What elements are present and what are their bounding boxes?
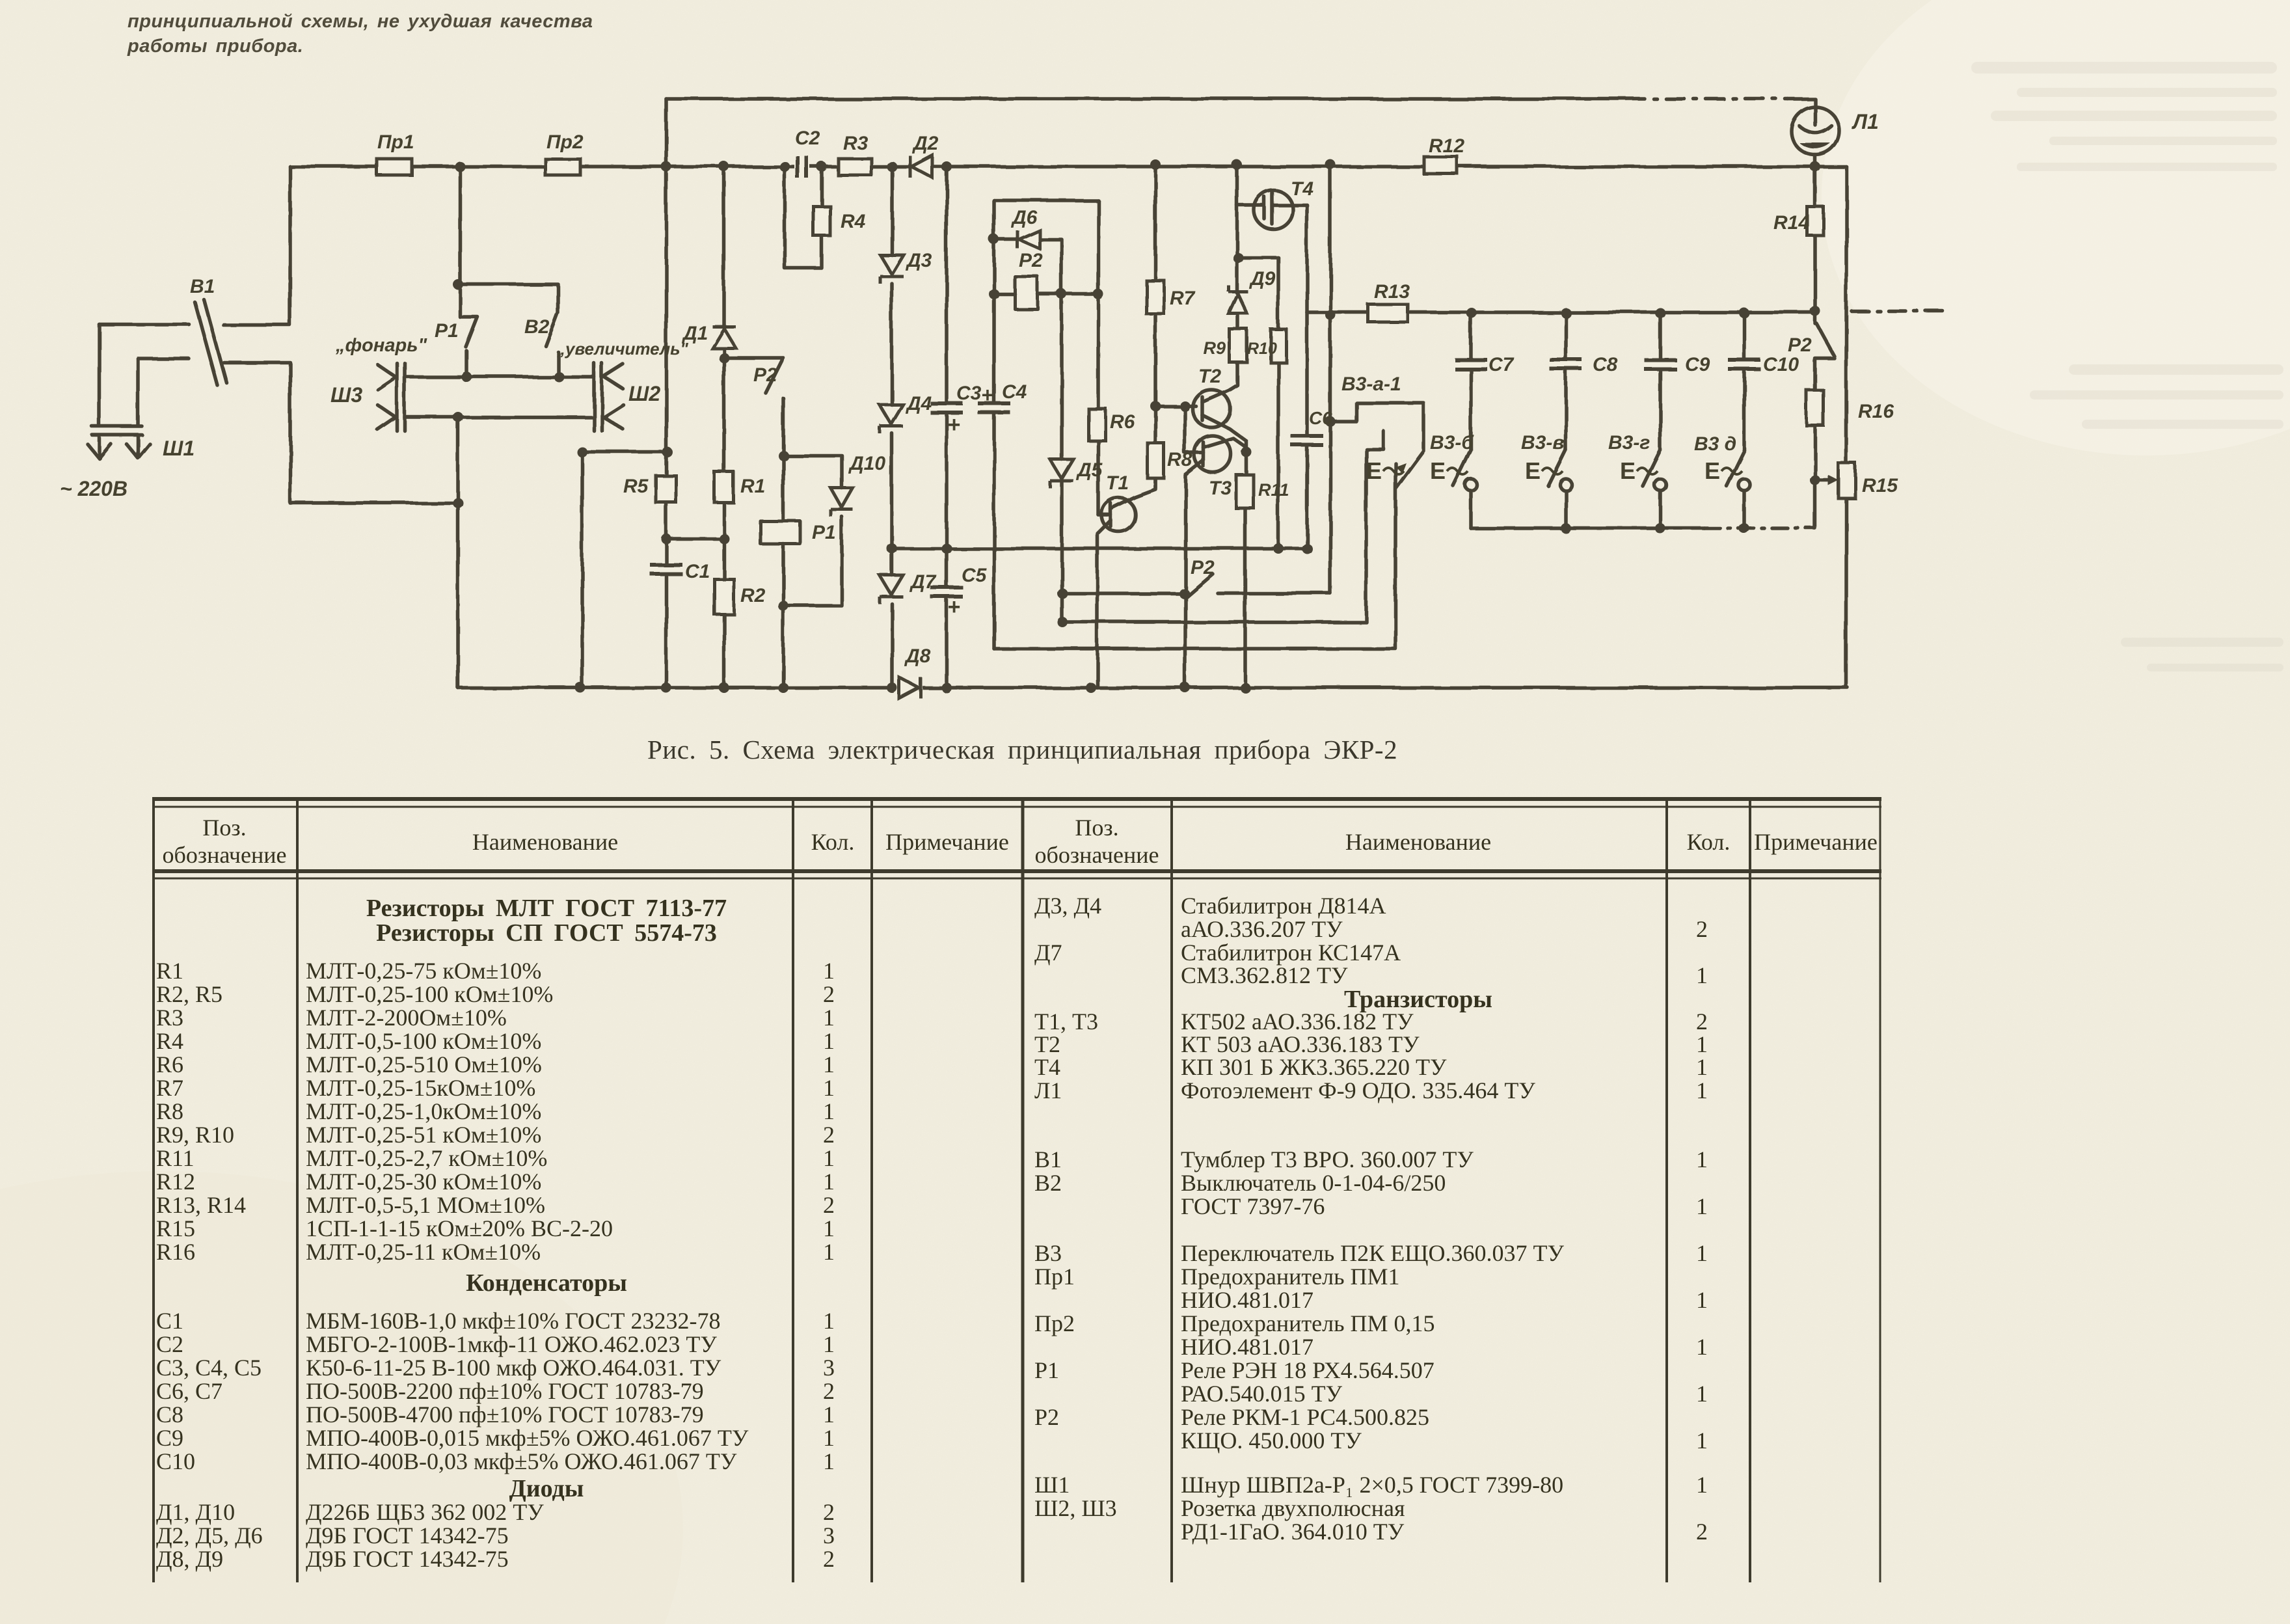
svg-text:R14: R14 [1773,212,1809,234]
svg-text:3: 3 [823,1522,835,1549]
wire R5 node to R1 node [666,537,724,541]
svg-text:Реле РЭН 18 РХ4.564.507: Реле РЭН 18 РХ4.564.507 [1181,1357,1435,1383]
svg-text:1: 1 [823,1028,835,1054]
wire node to R1 [722,358,726,472]
svg-text:РД1-1ГаО. 364.010 ТУ: РД1-1ГаО. 364.010 ТУ [1181,1519,1405,1545]
svg-text:+: + [947,413,960,437]
diode Д4 [880,405,903,433]
svg-text:1: 1 [1696,1054,1708,1080]
transistor Т4 [1254,190,1293,229]
svg-text:Наименование: Наименование [1345,829,1491,855]
wire C6 branch [1305,312,1309,548]
svg-text:Пр1: Пр1 [377,131,414,153]
wire R7 branch [1153,165,1157,443]
wire С8 column [1564,313,1568,450]
resistor R12 [1424,157,1457,174]
wire Д9 to R9 [1236,314,1240,329]
capacitor С9 [1644,358,1677,371]
svg-text:1: 1 [1696,1193,1708,1219]
svg-text:R8: R8 [1167,449,1192,470]
wire Д5 vertical [1060,294,1064,622]
svg-text:Д3, Д4: Д3, Д4 [1034,893,1101,919]
svg-text:2: 2 [823,1378,835,1404]
svg-text:Д5: Д5 [1075,459,1103,481]
junction dots [455,161,465,172]
capacitor С6 [1291,434,1323,447]
diode Д7 [880,575,903,604]
svg-text:1: 1 [823,1331,835,1357]
svg-text:С3: С3 [956,383,982,404]
svg-text:Конденсаторы: Конденсаторы [466,1269,627,1297]
resistor R2 [714,579,734,614]
svg-text:R11: R11 [156,1145,195,1171]
svg-text:С9: С9 [156,1425,183,1451]
svg-text:С4: С4 [1002,381,1027,403]
svg-text:НИО.481.017: НИО.481.017 [1181,1287,1313,1313]
diode Д3 [880,255,904,284]
svg-text:R7: R7 [156,1075,183,1101]
svg-text:R13: R13 [1374,281,1410,303]
svg-text:принципиальной схемы, не ухуд: принципиальной схемы, не ухудшая качеств… [128,11,593,32]
wire R11 branch [1245,452,1246,688]
diode Д1 [712,327,736,348]
svg-text:Переключатель П2К ЕЩО.360.03: Переключатель П2К ЕЩО.360.037 ТУ [1181,1240,1564,1266]
svg-text:В1: В1 [190,276,215,297]
svg-text:С2: С2 [156,1331,183,1357]
svg-text:МЛТ-0,25-51 кОм±10%: МЛТ-0,25-51 кОм±10% [306,1122,541,1148]
svg-text:2: 2 [823,1546,835,1572]
svg-text:МПО-400В-0,03 мкф±5% ОЖО.46: МПО-400В-0,03 мкф±5% ОЖО.461.067 ТУ [306,1448,737,1474]
wire base rail to T2 [1155,404,1196,408]
wire top supply bus [666,97,1626,101]
wire Д6 row [994,239,1062,294]
svg-text:2: 2 [1696,1519,1708,1545]
wire 2045 vertical [1328,165,1332,593]
svg-text:Д2: Д2 [911,133,939,154]
wire Д9 node [1237,165,1278,293]
switch В3-а-1 [1330,403,1423,488]
wire R15 node drop [1813,480,1817,528]
parts table rules [152,799,1881,1582]
svg-text:R13, R14: R13, R14 [156,1192,246,1218]
svg-text:Л1: Л1 [1852,110,1879,133]
svg-text:Р2: Р2 [1191,557,1215,578]
svg-text:E: E [1366,457,1382,484]
svg-text:МЛТ-0,5-100 кОм±10%: МЛТ-0,5-100 кОм±10% [306,1028,541,1054]
svg-text:1: 1 [1696,1472,1708,1498]
svg-text:Ш1: Ш1 [1034,1472,1070,1498]
svg-text:Шнур ШВП2а-Р₁ 2×0,5 ГОСТ 7399-: Шнур ШВП2а-Р₁ 2×0,5 ГОСТ 7399-80 [1181,1472,1563,1498]
svg-text:~ 220В: ~ 220В [60,477,128,500]
transistor Т3 [1194,436,1231,472]
svg-text:обозначение: обозначение [163,842,287,868]
svg-text:КП 301 Б ЖК3.365.220 ТУ: КП 301 Б ЖК3.365.220 ТУ [1181,1054,1447,1080]
svg-text:Л1: Л1 [1034,1077,1062,1103]
svg-text:Резисторы МЛТ ГОСТ 7113-77: Резисторы МЛТ ГОСТ 7113-77 [366,895,727,922]
wire С7 column [1469,313,1473,450]
svg-text:R1: R1 [740,476,765,497]
wire right loop vertical / R6 [1098,200,1108,515]
svg-text:R1: R1 [156,958,183,984]
wire mid rail (Д4/Д7 node) [892,547,1307,550]
svg-text:НИО.481.017: НИО.481.017 [1181,1334,1313,1360]
svg-text:1: 1 [823,1215,835,1241]
svg-text:С5: С5 [962,565,988,586]
bleed-through smudges right margin [1971,62,2283,671]
svg-text:Наименование: Наименование [472,829,618,855]
svg-text:Т4: Т4 [1291,178,1313,200]
wire R15 wiper [1815,478,1832,482]
diode Д2 [909,156,932,178]
svg-text:Д9: Д9 [1248,268,1276,290]
mechanical link dash right [1852,309,1948,313]
capacitor С4 [978,401,1010,414]
svg-text:R11: R11 [1258,480,1289,500]
svg-text:Ш1: Ш1 [163,437,195,460]
svg-text:Р2: Р2 [753,364,777,386]
svg-text:В3-в: В3-в [1521,432,1564,453]
diode Д9 (zener) [1228,285,1248,314]
В3-а-1 actuator arrow [1396,463,1407,474]
resistor R8 [1148,443,1164,478]
svg-text:Д3: Д3 [905,250,932,271]
wire R13 rail [1307,310,1815,314]
svg-text:R9: R9 [1203,338,1226,358]
contact Р2 (left) [724,358,783,455]
svg-text:1: 1 [823,1145,835,1171]
contact P1 (фонарь) [460,284,478,377]
svg-text:1: 1 [1696,962,1708,988]
svg-text:R10: R10 [1247,340,1277,358]
svg-text:МЛТ-0,25-100 кОм±10%: МЛТ-0,25-100 кОм±10% [306,981,553,1007]
svg-text:Пр2: Пр2 [1034,1310,1075,1336]
svg-text:С8: С8 [1593,354,1618,375]
svg-text:С8: С8 [156,1401,183,1428]
svg-text:1: 1 [823,1401,835,1428]
svg-text:Т4: Т4 [1034,1054,1060,1080]
wire R14 branch [1813,167,1817,311]
wire rail 956 [1062,431,1383,622]
svg-text:1: 1 [823,1005,835,1031]
svg-text:1: 1 [823,958,835,984]
svg-text:Т1: Т1 [1106,472,1129,494]
resistor R6 [1088,409,1105,440]
svg-text:Р1: Р1 [812,522,836,543]
svg-text:МЛТ-0,25-1,0кОм±10%: МЛТ-0,25-1,0кОм±10% [306,1098,541,1124]
wire R16 to node [1813,426,1817,480]
wire 704 down to bus corner [456,503,460,688]
svg-text:Д1, Д10: Д1, Д10 [156,1499,235,1525]
resistor R15 [1839,463,1855,498]
svg-text:R12: R12 [156,1169,195,1195]
svg-text:В1: В1 [1034,1146,1062,1172]
socket Ш3 arrows [377,364,396,429]
svg-text:Диоды: Диоды [509,1475,584,1502]
svg-text:МЛТ-0,25-510 Ом±10%: МЛТ-0,25-510 Ом±10% [306,1051,542,1077]
wire Д10 branch bottom [783,517,842,606]
svg-text:Пр2: Пр2 [546,131,584,153]
svg-text:В3-б: В3-б [1430,432,1474,453]
wire right edge drop (R15 net) [1844,167,1848,687]
svg-text:2: 2 [1696,1008,1708,1035]
svg-text:2: 2 [823,1192,835,1218]
svg-text:ГОСТ 7397-76: ГОСТ 7397-76 [1181,1193,1325,1219]
svg-text:R5: R5 [623,476,649,497]
relay coil Р2 [1015,277,1038,309]
wire loop top [994,198,1098,202]
svg-text:R6: R6 [1110,411,1135,433]
socket Ш2 contact bars [594,363,602,431]
switch В3-г [1643,450,1660,486]
svg-text:1: 1 [1696,1381,1708,1407]
svg-text:1: 1 [1696,1240,1708,1266]
wire Л1 to fuse bus [1813,155,1817,167]
socket Ш2 arrows [604,364,623,429]
svg-text:работы прибора.: работы прибора. [127,36,303,57]
svg-text:С6: С6 [1309,408,1332,428]
diode Д8 [896,677,923,698]
svg-text:КТ 503 аАО.336.183 ТУ: КТ 503 аАО.336.183 ТУ [1181,1031,1420,1057]
svg-text:+: + [981,383,993,407]
transistor Т1 [1101,498,1135,532]
svg-text:С2: С2 [795,128,820,149]
svg-text:МЛТ-0,25-2,7 кОм±10%: МЛТ-0,25-2,7 кОм±10% [306,1145,547,1171]
switch B2 [460,284,558,377]
svg-text:Д1: Д1 [681,323,708,344]
wire Р2 coil row [994,292,1098,296]
svg-text:Тумблер Т3 ВРО. 360.007 ТУ: Тумблер Т3 ВРО. 360.007 ТУ [1181,1146,1474,1172]
wire С9 column [1658,313,1662,450]
svg-text:E: E [1620,457,1636,484]
switch В3-б [1453,450,1471,486]
svg-text:Примечание: Примечание [1754,829,1878,855]
svg-text:Рис. 5. Схема электрическая пр: Рис. 5. Схема электрическая принципиальн… [647,735,1397,765]
svg-text:R16: R16 [156,1239,195,1265]
svg-text:ПО-500В-2200 пф±10% ГОСТ 1078: ПО-500В-2200 пф±10% ГОСТ 10783-79 [306,1378,704,1404]
svg-text:R9, R10: R9, R10 [156,1122,234,1148]
svg-text:Д8, Д9: Д8, Д9 [156,1546,223,1572]
svg-text:1: 1 [1696,1428,1708,1454]
svg-text:Кол.: Кол. [811,829,855,855]
svg-text:МЛТ-0,25-30 кОм±10%: МЛТ-0,25-30 кОм±10% [306,1169,541,1195]
svg-text:Реле РКМ-1 РС4.500.825: Реле РКМ-1 РС4.500.825 [1181,1404,1429,1430]
schematic labels [60,110,1898,667]
svg-text:ПО-500В-4700 пф±10% ГОСТ 1078: ПО-500В-4700 пф±10% ГОСТ 10783-79 [306,1401,704,1428]
svg-text:R8: R8 [156,1098,183,1124]
svg-text:1: 1 [823,1098,835,1124]
svg-text:1: 1 [823,1239,835,1265]
svg-text:Д6: Д6 [1010,207,1038,228]
svg-text:1: 1 [1696,1031,1708,1057]
capacitor С8 [1550,358,1582,371]
wire B1 lower pole down [224,362,458,503]
svg-text:R12: R12 [1429,135,1464,157]
wire mains to B1 upper pole [99,322,189,326]
diode Д10 [831,488,853,517]
resistor R13 [1368,304,1408,322]
svg-text:В2: В2 [1034,1170,1062,1196]
svg-text:R15: R15 [156,1215,195,1241]
svg-text:Резисторы СП ГОСТ 5574-73: Резисторы СП ГОСТ 5574-73 [376,919,717,947]
svg-text:R2: R2 [740,585,766,606]
wire Ш2 return to R5 node [582,452,667,688]
wire R5 to C1 to bus [664,502,668,688]
svg-text:Д226Б ЩБ3 362 002 ТУ: Д226Б ЩБ3 362 002 ТУ [306,1499,544,1525]
svg-text:Д4: Д4 [905,393,932,414]
svg-text:аАО.336.207 ТУ: аАО.336.207 ТУ [1181,916,1343,942]
svg-text:Транзисторы: Транзисторы [1344,986,1492,1013]
capacitor С7 [1455,358,1487,371]
svg-text:Р2: Р2 [1788,334,1812,356]
wire P2 contact to P1 coil [781,455,785,521]
wire Т4 drain down to R13 rail [1305,205,1309,312]
svg-text:1: 1 [823,1425,835,1451]
svg-text:МЛТ-0,5-5,1 МОм±10%: МЛТ-0,5-5,1 МОм±10% [306,1192,545,1218]
svg-text:R16: R16 [1858,401,1894,422]
svg-text:R4: R4 [841,211,866,232]
svg-text:Стабилитрон Д814А: Стабилитрон Д814А [1181,893,1386,919]
resistor R10 [1271,329,1286,362]
resistor Пр2 fuse [545,159,580,175]
wire fuse bus to Д1 [722,167,726,327]
svg-text:1СП-1-1-15 кОм±20% ВС-2-20: 1СП-1-1-15 кОм±20% ВС-2-20 [306,1215,613,1241]
svg-text:3: 3 [823,1355,835,1381]
resistor R16 [1807,390,1824,426]
svg-text:МЛТ-0,25-15кОм±10%: МЛТ-0,25-15кОм±10% [306,1075,535,1101]
wire fuse bus junction down to P1/B2 [458,167,462,284]
svg-text:R4: R4 [156,1028,183,1054]
svg-text:В3 д: В3 д [1694,433,1736,455]
svg-text:R3: R3 [156,1005,183,1031]
svg-text:1: 1 [823,1075,835,1101]
svg-text:Д8: Д8 [904,645,931,667]
svg-text:Д9Б ГОСТ 14342-75: Д9Б ГОСТ 14342-75 [306,1522,509,1549]
svg-text:С6, С7: С6, С7 [156,1378,222,1404]
svg-text:Р2: Р2 [1034,1404,1059,1430]
svg-text:Пр1: Пр1 [1034,1264,1075,1290]
resistor R4 [813,206,830,236]
svg-text:R2, R5: R2, R5 [156,981,222,1007]
svg-text:Т1, Т3: Т1, Т3 [1034,1008,1098,1035]
switch В3-в [1548,450,1566,486]
wire connector lower rail [405,415,594,419]
wire В3 bottom rail [1471,526,1704,530]
svg-text:1: 1 [823,1051,835,1077]
svg-text:КЩО. 450.000 ТУ: КЩО. 450.000 ТУ [1181,1428,1362,1454]
resistor R1 [714,472,733,502]
svg-text:Поз.: Поз. [202,815,246,841]
svg-text:R15: R15 [1862,475,1898,496]
svg-text:В2: В2 [524,316,550,338]
svg-text:1: 1 [823,1308,835,1334]
diode Д6 [1016,230,1040,249]
svg-text:2: 2 [823,1122,835,1148]
switch В3 д [1727,450,1744,486]
svg-text:МПО-400В-0,015 мкф±5% ОЖО.461: МПО-400В-0,015 мкф±5% ОЖО.461.067 ТУ [306,1425,749,1451]
svg-text:Д2, Д5, Д6: Д2, Д5, Д6 [156,1522,263,1549]
svg-text:обозначение: обозначение [1035,842,1159,868]
resistor R9 [1230,329,1247,362]
wire bottom common bus [458,686,1848,690]
svg-text:Д9Б ГОСТ 14342-75: Д9Б ГОСТ 14342-75 [306,1546,509,1572]
svg-text:R3: R3 [843,133,869,154]
svg-text:Д10: Д10 [848,453,885,474]
relay coil Р1 [761,521,800,544]
svg-text:1: 1 [1696,1146,1708,1172]
wire lower rail to bottom bus [456,417,460,503]
resistor Пр1 fuse [377,159,412,175]
svg-text:С3, С4, С5: С3, С4, С5 [156,1355,262,1381]
svg-text:В3: В3 [1034,1240,1062,1266]
wire С10 column [1742,313,1746,450]
svg-text:МБГО-2-100В-1мкф-11 ОЖО.462.0: МБГО-2-100В-1мкф-11 ОЖО.462.023 ТУ [306,1331,717,1357]
capacitor С2 [794,156,810,178]
svg-text:Ш2: Ш2 [628,382,660,405]
plug Ш1 [92,324,142,454]
svg-text:МЛТ-0,25-75 кОм±10%: МЛТ-0,25-75 кОм±10% [306,958,541,984]
svg-text:С10: С10 [1763,354,1799,375]
resistor R14 [1807,207,1824,236]
wire B1 upper pole to fuse bus [224,167,290,325]
svg-text:E: E [1525,457,1541,484]
wire C3/C5 chain [945,167,949,688]
svg-text:R7: R7 [1170,288,1196,309]
svg-text:1: 1 [1696,1077,1708,1103]
capacitor С1 [650,563,682,576]
svg-text:С9: С9 [1685,354,1710,375]
svg-text:R6: R6 [156,1051,183,1077]
svg-text:С1: С1 [156,1308,183,1334]
contact Р2 (right) [1815,311,1835,390]
wire C4 left loop vertical [992,200,996,649]
svg-text:E: E [1704,457,1720,484]
diode Д5 [1050,459,1073,488]
svg-text:Поз.: Поз. [1075,815,1118,841]
wire R4 loop [785,167,822,268]
svg-text:Стабилитрон КС147А: Стабилитрон КС147А [1181,940,1401,966]
svg-text:Предохранитель ПМ 0,15: Предохранитель ПМ 0,15 [1181,1310,1435,1336]
svg-text:Примечание: Примечание [885,829,1009,855]
svg-text:МБМ-160В-1,0 мкф±10% ГОСТ 232: МБМ-160В-1,0 мкф±10% ГОСТ 23232-78 [306,1308,720,1334]
svg-text:С1: С1 [685,561,710,582]
wire Д3 chain [890,167,894,688]
svg-text:Т3: Т3 [1209,478,1232,499]
wire rail to П2К (via Р2 contact) [1062,591,1330,595]
svg-text:К50-6-11-25 В-100 мкф ОЖО.4: К50-6-11-25 В-100 мкф ОЖО.464.031. ТУ [306,1355,721,1381]
svg-text:„фонарь": „фонарь" [335,335,427,356]
svg-text:1: 1 [1696,1287,1708,1313]
capacitor С5 [930,586,963,599]
wire connector upper rail [405,375,594,379]
svg-text:Т2: Т2 [1034,1031,1060,1057]
transistor Т2 [1192,390,1230,427]
svg-text:Р1: Р1 [435,320,459,342]
svg-text:Ш2, Ш3: Ш2, Ш3 [1034,1495,1117,1521]
svg-text:1: 1 [823,1448,835,1474]
svg-text:Выключатель 0-1-04-6/250: Выключатель 0-1-04-6/250 [1181,1170,1446,1196]
svg-text:+: + [947,595,960,619]
socket Ш3 contact bars [397,363,405,431]
resistor R11 [1236,475,1254,508]
wire R8 bottom [1153,478,1157,488]
svg-text:Д7: Д7 [1034,940,1062,966]
svg-text:Кол.: Кол. [1687,829,1731,855]
svg-text:РАО.540.015 ТУ: РАО.540.015 ТУ [1181,1381,1343,1407]
wire rail 997 [994,463,1395,649]
svg-text:Д7: Д7 [909,571,937,593]
svg-text:2: 2 [823,981,835,1007]
switch B1 contact bars [195,302,217,385]
